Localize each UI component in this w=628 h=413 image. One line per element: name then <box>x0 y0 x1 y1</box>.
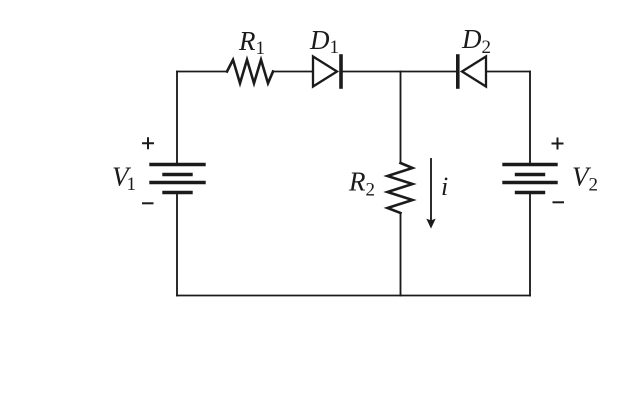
svg-text:D2: D2 <box>461 24 491 58</box>
wire left vertical top (corner to battery V1) <box>176 72 178 164</box>
svg-text:V2: V2 <box>572 162 598 196</box>
minus sign of V1 <box>142 202 154 204</box>
wire left vertical bottom (battery V1 to bottom) <box>176 194 178 296</box>
diode D2 triangle <box>462 57 486 87</box>
plus sign of V2 <box>552 138 564 150</box>
resistor R2 <box>388 163 413 213</box>
diode D2 cathode bar <box>456 56 460 87</box>
wire right vertical bottom (battery V2 to bottom) <box>529 194 531 296</box>
current arrow i head <box>426 219 435 229</box>
svg-text:i: i <box>441 172 448 201</box>
wire middle vertical bottom (R2 to bottom wire) <box>400 213 402 296</box>
wire D2 to top-right corner <box>486 71 530 73</box>
svg-text:D1: D1 <box>309 25 339 58</box>
resistor R1 <box>227 60 273 83</box>
svg-text:R2: R2 <box>348 167 375 201</box>
wire R1 to D1 <box>273 71 313 73</box>
wire right vertical top (corner to battery V2) <box>529 72 531 164</box>
svg-text:R1: R1 <box>238 26 265 59</box>
diode D1 cathode bar <box>339 56 343 87</box>
current arrow i line <box>430 159 432 220</box>
minus sign of V2 <box>553 201 565 203</box>
wire top segment V1 corner to R1 <box>177 71 227 73</box>
wire D1 to D2 through node <box>343 71 458 73</box>
diode D1 triangle <box>313 57 337 87</box>
battery V2 plates <box>504 165 556 193</box>
battery V1 plates <box>151 165 204 193</box>
wire middle vertical top (node to R2) <box>400 72 402 164</box>
wire bottom <box>177 295 530 297</box>
svg-text:V1: V1 <box>112 162 136 196</box>
plus sign of V1 <box>142 137 154 149</box>
